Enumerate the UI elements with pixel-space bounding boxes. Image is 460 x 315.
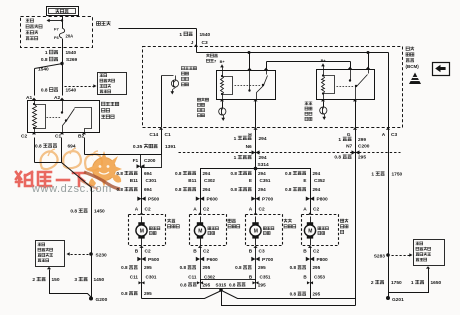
column 1 lower labels: [139, 246, 143, 248]
svg-text:294: 294: [313, 171, 321, 176]
svg-text:0.8: 0.8: [41, 88, 48, 94]
svg-text:294: 294: [203, 171, 211, 176]
svg-text:N7: N7: [346, 144, 352, 150]
svg-text:C2: C2: [313, 206, 319, 212]
svg-text:0.8: 0.8: [175, 187, 182, 192]
svg-text:0.8: 0.8: [41, 57, 48, 63]
svg-text:1450: 1450: [94, 277, 105, 283]
splice S315: [221, 289, 223, 290]
svg-text:295: 295: [313, 265, 321, 270]
watermark: dzsc sun mascot logo: [41, 148, 122, 187]
svg-text:A: A: [193, 206, 197, 212]
svg-text:E: E: [249, 178, 252, 183]
wire down to S230/G200: [91, 188, 93, 299]
svg-text:P500: P500: [148, 257, 160, 263]
svg-text:A: A: [303, 206, 307, 212]
diagonal wire to ground run: [62, 163, 92, 188]
column 4 lower labels: [308, 246, 312, 248]
svg-text:0.8: 0.8: [285, 171, 292, 176]
wire C1 down: [61, 138, 63, 163]
svg-text:0.8: 0.8: [180, 265, 187, 270]
wire fuse to S269: [62, 39, 64, 64]
svg-text:1: 1: [179, 32, 182, 38]
svg-text:M: M: [254, 228, 258, 234]
svg-text:1540: 1540: [66, 88, 77, 94]
svg-text:694: 694: [144, 171, 152, 176]
svg-text:B2: B2: [78, 133, 84, 139]
svg-text:S230: S230: [96, 253, 108, 259]
svg-text:1: 1: [234, 136, 237, 142]
svg-text:P600: P600: [207, 257, 219, 263]
svg-text:295: 295: [203, 282, 211, 287]
svg-text:B11: B11: [188, 178, 197, 183]
B+ bus inside BCM: [197, 52, 389, 54]
svg-text:1450: 1450: [94, 209, 105, 215]
svg-text:0.8: 0.8: [121, 291, 128, 296]
svg-text:P500: P500: [148, 197, 160, 203]
svg-text:20A: 20A: [66, 34, 74, 39]
driver unlock output transistor Q1: [161, 76, 163, 128]
connector frame F1 C200: [141, 155, 162, 168]
relay box driver unlock: [28, 101, 100, 133]
fuse F7 20A: [59, 28, 64, 38]
ground bus lower: [222, 291, 356, 306]
svg-text:M: M: [308, 228, 312, 234]
svg-text:C3: C3: [259, 249, 265, 255]
svg-text:C200: C200: [144, 158, 156, 164]
svg-text:C302: C302: [204, 178, 215, 183]
B+ stub relay2: [323, 66, 325, 70]
connector N6/C200: [255, 129, 257, 169]
svg-text:C14: C14: [149, 132, 158, 138]
dashed reference to power dist box: [63, 77, 95, 87]
all doors lock relay in BCM: [317, 70, 375, 100]
svg-text:C1: C1: [165, 132, 171, 138]
door name label 4: [341, 219, 344, 222]
svg-text:B+: B+: [220, 60, 226, 64]
svg-text:0.8: 0.8: [35, 144, 42, 150]
branch to col4: [256, 169, 311, 215]
door lock actuator motor M3: [246, 215, 283, 246]
svg-text:C11: C11: [188, 274, 197, 279]
relay2 bus drop: [367, 51, 370, 54]
BCM ground wire A/C3: [388, 53, 390, 128]
ground G201: [386, 296, 390, 300]
svg-text:295: 295: [144, 265, 152, 270]
svg-text:P800: P800: [317, 197, 329, 203]
svg-text:C2: C2: [203, 249, 209, 255]
terminals C2 C1 B2: [32, 132, 36, 134]
svg-text:1: 1: [411, 280, 414, 286]
svg-text:0.8: 0.8: [229, 282, 236, 287]
connector P700 upper: [251, 197, 259, 201]
svg-text:1540: 1540: [38, 67, 49, 73]
BCM H output wire: [255, 100, 257, 128]
svg-text:C2: C2: [203, 206, 209, 212]
svg-text:1750: 1750: [392, 172, 403, 178]
svg-text:0.8: 0.8: [121, 265, 128, 270]
svg-text:0.8: 0.8: [175, 171, 182, 176]
connector P600 upper: [196, 197, 204, 201]
svg-text:C11: C11: [130, 274, 139, 279]
column 2 lower labels: [198, 246, 202, 248]
svg-text:2: 2: [32, 277, 35, 283]
all doors lock output transistor Q3: [323, 102, 325, 108]
svg-text:C2: C2: [313, 249, 319, 255]
relay coil: [34, 101, 36, 105]
svg-text:1750: 1750: [391, 280, 402, 286]
svg-text:1650: 1650: [431, 280, 442, 286]
svg-text:C2: C2: [145, 249, 151, 255]
svg-text:S314: S314: [258, 162, 270, 168]
S315 label frame: [200, 280, 202, 283]
feed wire to BCM J/C3: [119, 28, 197, 30]
svg-text:(BCM): (BCM): [406, 64, 420, 69]
svg-text:3: 3: [74, 277, 77, 283]
svg-text:C301: C301: [146, 274, 157, 279]
relay1 bus drop: [248, 51, 251, 54]
svg-text:A2: A2: [54, 95, 60, 101]
connector P500 upper: [137, 197, 145, 201]
svg-text:A: A: [135, 206, 139, 212]
svg-text:M: M: [140, 228, 144, 234]
passenger unlock relay in BCM: [217, 71, 276, 100]
svg-text:1: 1: [45, 50, 48, 56]
svg-text:B: B: [135, 249, 139, 255]
svg-text:A: A: [382, 132, 386, 138]
svg-text:B: B: [249, 249, 253, 255]
svg-text:1540: 1540: [200, 32, 211, 38]
relay2 switch blade: [355, 85, 357, 87]
relay1 bottom terminals: [220, 99, 224, 101]
svg-text:295: 295: [258, 282, 266, 287]
svg-text:1: 1: [234, 155, 237, 161]
wire B2 to C200: [84, 138, 86, 155]
svg-text:C351: C351: [260, 178, 271, 183]
door lock actuator motor M2: [190, 215, 227, 246]
svg-text:B: B: [303, 249, 307, 255]
splice S283: [386, 253, 390, 257]
relay1 dashed link: [235, 85, 261, 87]
dashed reference left: [71, 254, 89, 256]
connector N7/C200: [352, 150, 360, 154]
BCM G output wire: [355, 100, 357, 128]
inline connector C200 dashed line: [179, 152, 401, 154]
svg-text:E: E: [303, 178, 306, 183]
svg-text:0.8: 0.8: [180, 282, 187, 287]
svg-text:C200: C200: [358, 144, 370, 150]
relay1 coil: [222, 71, 224, 77]
svg-text:2: 2: [371, 280, 374, 286]
svg-text:694: 694: [68, 144, 76, 150]
svg-text:C302: C302: [204, 274, 215, 279]
svg-text:294: 294: [259, 155, 267, 161]
wire C2 down: [34, 138, 36, 163]
column 1 feed wire: [141, 168, 143, 215]
svg-text:B: B: [193, 249, 197, 255]
watermark: red brand text: [16, 172, 85, 187]
passenger unlock output transistor Q2: [222, 102, 224, 109]
svg-text:C3: C3: [202, 40, 208, 46]
fuse box dashed outline: [21, 17, 93, 48]
branch col3 down: [255, 169, 257, 215]
svg-text:S283: S283: [374, 254, 386, 260]
svg-text:B+: B+: [321, 59, 327, 63]
relay2 interconnect terminal: [350, 62, 352, 70]
ground distribution reference box left: [36, 241, 65, 267]
power distribution reference box: [98, 73, 127, 95]
svg-text:0.8: 0.8: [285, 187, 292, 192]
svg-text:295: 295: [313, 292, 321, 297]
svg-text:C351: C351: [260, 274, 271, 279]
svg-text:P600: P600: [207, 197, 219, 203]
wire C14/C1 from BCM: [161, 129, 163, 155]
battery voltage text: [206, 54, 209, 57]
svg-text:1391: 1391: [165, 144, 176, 150]
wire G down to ground bus: [355, 128, 357, 306]
svg-text:A1: A1: [26, 95, 32, 101]
relay switch: [62, 101, 64, 113]
svg-text:0.8: 0.8: [231, 187, 238, 192]
ground G200: [89, 297, 93, 301]
wire S269 to A1: [35, 64, 63, 69]
battery feed box: [47, 7, 79, 16]
wire battery to fuse: [62, 16, 64, 29]
door name label 3: [284, 219, 287, 222]
reference arrow inside fuse box: [50, 20, 62, 22]
wire S269 to A2: [62, 64, 64, 96]
door lock actuator motor M1: [129, 215, 166, 246]
svg-text:C2: C2: [21, 133, 27, 139]
svg-text:J: J: [191, 40, 194, 46]
svg-text:F6: F6: [54, 35, 59, 40]
door name label 2: [228, 219, 231, 222]
navigation arrow box: [433, 63, 450, 76]
svg-text:F7: F7: [54, 27, 59, 32]
box ground wire right: [426, 266, 430, 268]
svg-text:F1: F1: [133, 158, 139, 164]
svg-text:1540: 1540: [66, 50, 77, 56]
svg-text:0.8: 0.8: [290, 292, 297, 297]
svg-text:S269: S269: [66, 57, 78, 63]
svg-text:C3: C3: [391, 132, 397, 138]
svg-text:C352: C352: [314, 178, 325, 183]
svg-text:294: 294: [258, 171, 266, 176]
svg-text:B11: B11: [130, 178, 139, 183]
svg-text:G201: G201: [392, 297, 404, 303]
svg-text:295: 295: [144, 291, 152, 296]
svg-text:294: 294: [313, 187, 321, 192]
relay1 switch blade: [262, 84, 264, 86]
svg-text:www.dzsc.com: www.dzsc.com: [31, 183, 112, 195]
svg-text:0.35: 0.35: [133, 144, 143, 150]
svg-text:G200: G200: [96, 297, 108, 303]
svg-text:P800: P800: [317, 257, 329, 263]
relay2 coil: [323, 70, 325, 76]
B+ stub relay1: [222, 67, 224, 71]
svg-text:295: 295: [358, 155, 366, 161]
svg-text:C353: C353: [314, 274, 325, 279]
ground bus right upper: [222, 291, 356, 299]
ground distribution reference box right: [414, 240, 445, 266]
dashed reference to ground dist box: [392, 255, 410, 257]
svg-text:150: 150: [52, 277, 60, 283]
relay internal dashed link: [47, 117, 61, 119]
connector P800 upper: [306, 197, 314, 201]
svg-text:N6: N6: [246, 144, 252, 150]
door name label 1: [167, 219, 170, 222]
svg-text:294: 294: [259, 136, 267, 142]
relay1 NC wire to interconnect: [264, 68, 268, 70]
svg-text:A: A: [249, 206, 253, 212]
wire A/C3 down: [388, 128, 390, 299]
svg-text:P700: P700: [262, 197, 274, 203]
fuse box reference text: [26, 19, 29, 22]
ESD sensitive symbol: [409, 73, 421, 85]
branch to col2: [201, 169, 256, 215]
svg-text:0.8: 0.8: [117, 187, 124, 192]
svg-text:0.8: 0.8: [70, 209, 77, 215]
BCM label: [406, 47, 409, 50]
svg-text:C1: C1: [55, 133, 61, 139]
box ground wire left: [47, 267, 51, 269]
svg-text:1: 1: [371, 172, 374, 178]
ground bus left: [142, 291, 222, 299]
svg-text:C301: C301: [146, 178, 157, 183]
svg-text:0.8: 0.8: [290, 265, 297, 270]
column 3 lower labels: [253, 246, 257, 248]
svg-text:C2: C2: [259, 206, 265, 212]
svg-text:S315: S315: [216, 282, 227, 287]
svg-text:0.8: 0.8: [235, 265, 242, 270]
svg-text:295: 295: [203, 265, 211, 270]
svg-text:294: 294: [258, 187, 266, 192]
svg-text:299: 299: [358, 137, 366, 143]
svg-text:P700: P700: [262, 257, 274, 263]
svg-text:0.8: 0.8: [117, 171, 124, 176]
svg-text:M: M: [198, 228, 202, 234]
splice S230: [89, 252, 93, 256]
svg-text:294: 294: [203, 187, 211, 192]
svg-text:694: 694: [144, 187, 152, 192]
svg-text:C2: C2: [145, 206, 151, 212]
splice S269: [60, 62, 63, 65]
svg-text:295: 295: [258, 265, 266, 270]
svg-text:1: 1: [338, 137, 341, 143]
BCM dashed box: [143, 47, 403, 128]
door lock actuator motor M4: [302, 215, 339, 246]
svg-text:0.8: 0.8: [334, 155, 341, 161]
relay2 dashed link: [337, 86, 355, 88]
relay2 bottom terminals: [321, 99, 325, 101]
svg-text:0.8: 0.8: [231, 171, 238, 176]
